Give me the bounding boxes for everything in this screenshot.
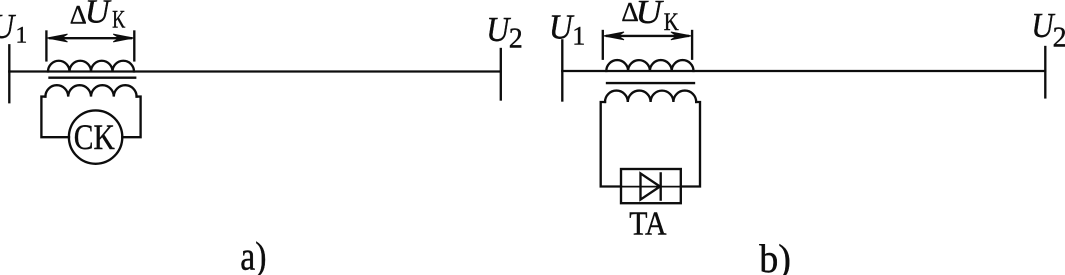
svg-text:U: U: [85, 0, 112, 31]
synchronous condenser CK circle: [69, 110, 122, 163]
svg-text:U: U: [636, 0, 665, 31]
secondary winding (b): [605, 91, 696, 102]
wire: main line a: [9, 70, 500, 72]
dimension tick right (b): [691, 31, 693, 59]
dimension tick right (a): [133, 32, 135, 61]
svg-text:1: 1: [16, 23, 28, 49]
svg-text:K: K: [112, 7, 125, 34]
svg-text:2: 2: [1053, 23, 1065, 54]
svg-text:1: 1: [572, 21, 585, 50]
dimension tick left (b): [602, 31, 604, 59]
svg-text:b): b): [759, 236, 791, 275]
dimension arrow delta-Uk (a): [50, 37, 131, 39]
wire: secondary right lead (a): [122, 97, 140, 138]
reactor series winding (a): [48, 61, 134, 72]
svg-text:2: 2: [509, 24, 523, 55]
thyristor box TA: [621, 169, 681, 203]
svg-text:a): a): [240, 233, 266, 275]
secondary winding (a): [45, 85, 136, 96]
svg-text:CK: CK: [74, 117, 115, 157]
wire: secondary left lead (b): [601, 102, 621, 187]
dimension tick left (a): [45, 32, 47, 61]
reactor series winding (b): [606, 60, 693, 71]
thyristor cathode bar: [660, 173, 662, 199]
svg-text:U: U: [0, 7, 17, 46]
bus bar U2 (b): [1044, 47, 1046, 97]
wire: main line b: [562, 70, 1045, 72]
wire: secondary right lead (b): [681, 102, 700, 187]
wire through thyristor box: [621, 186, 681, 188]
bus bar U2 (a): [500, 49, 502, 100]
transformer core bar (a): [50, 77, 136, 79]
thyristor diode triangle: [641, 173, 661, 199]
transformer core bar (b): [607, 82, 694, 84]
svg-text:TA: TA: [629, 205, 666, 242]
bus bar U1 (a): [8, 45, 10, 102]
wire: secondary left lead (a): [41, 97, 69, 138]
bus bar U1 (b): [561, 40, 563, 100]
dimension arrow delta-Uk (b): [607, 35, 688, 37]
